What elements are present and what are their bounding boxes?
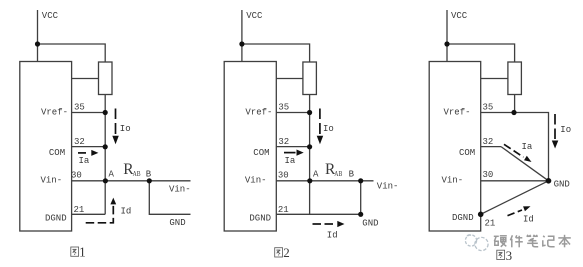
svg-text:Io: Io [120, 124, 131, 134]
resistor fig1 [99, 62, 113, 95]
svg-text:VCC: VCC [246, 11, 263, 21]
pin 32 wire fig2 [276, 146, 309, 148]
wire VCC supply fig1 [37, 10, 39, 62]
svg-text:Vref-: Vref- [444, 107, 471, 117]
svg-text:B: B [146, 170, 152, 180]
pin 35 wire fig2 [276, 112, 309, 114]
svg-text:2: 2 [283, 245, 290, 260]
wire top rail fig3 [447, 44, 515, 62]
junction dot VCC fig1 [35, 41, 40, 46]
svg-text:DGND: DGND [249, 214, 271, 224]
diagonal wire pin32 to GND fig3 [501, 147, 549, 181]
pin 35 wire fig1 [72, 112, 106, 114]
svg-text:Ia: Ia [522, 142, 533, 152]
pin 21 wire fig1 [72, 213, 106, 215]
char 硬 [494, 236, 507, 247]
IC block fig2 [224, 62, 276, 232]
wire IC-to-resistor stub fig1 [72, 78, 99, 80]
current arrow Io fig1 [112, 109, 119, 145]
svg-text:21: 21 [278, 205, 289, 215]
current arrow Io fig3 [552, 114, 559, 149]
svg-text:DGND: DGND [452, 213, 474, 223]
svg-text:Id: Id [523, 215, 534, 225]
diagonal wire pin21 to GND fig3 [481, 181, 549, 215]
node B dot fig2 [358, 178, 363, 183]
current arrow Ia fig2 [284, 150, 304, 156]
svg-text:B: B [349, 170, 355, 180]
pin 21 wire fig2 [276, 213, 360, 215]
char 笔 [527, 235, 538, 247]
wire resistor bottom lead fig1 [104, 95, 106, 113]
svg-text:GND: GND [169, 218, 185, 228]
wire resistor bottom lead fig3 [514, 95, 516, 113]
wire resistor bottom lead fig2 [309, 95, 311, 113]
char 记 [543, 236, 555, 247]
svg-text:Vin-: Vin- [245, 175, 267, 185]
current arrow Ia fig1 [78, 150, 98, 156]
junction dot pin35 fig1 [103, 110, 108, 115]
caption 图1 [71, 247, 79, 256]
IC block fig3 [429, 62, 481, 232]
node GND dot fig3 [546, 178, 552, 184]
svg-text:32: 32 [483, 137, 494, 147]
svg-text:Id: Id [121, 207, 132, 217]
wire IC-to-resistor stub fig2 [276, 78, 303, 80]
svg-text:Vin-: Vin- [41, 175, 63, 185]
junction dot pin32 fig2 [307, 144, 312, 149]
svg-text:GND: GND [362, 219, 378, 229]
svg-text:3: 3 [506, 248, 512, 263]
current arrow Id fig1 [86, 198, 117, 223]
wire top rail fig2 [242, 44, 310, 62]
wire pin21 riser fig1 [104, 181, 106, 215]
svg-text:Id: Id [327, 231, 338, 241]
junction dot pin35 fig3 [511, 110, 516, 115]
junction dot VCC fig3 [444, 41, 449, 46]
char 本 [558, 235, 571, 248]
wire IC-to-resistor stub fig3 [481, 78, 508, 80]
current arrow Ia fig3 [504, 144, 532, 162]
wire B to GND fig1 [149, 181, 190, 215]
junction dot pin35 fig2 [307, 110, 312, 115]
svg-text:35: 35 [278, 103, 289, 113]
junction dot GND corner fig2 [358, 212, 363, 217]
IC block fig1 [20, 62, 72, 232]
svg-text:Vin-: Vin- [169, 185, 191, 195]
wire VCC supply fig3 [446, 10, 448, 62]
svg-text:AB: AB [133, 170, 141, 178]
junction dot VCC fig2 [239, 41, 244, 46]
wire bus riser fig2 [309, 181, 311, 215]
svg-text:Vin-: Vin- [442, 175, 464, 185]
svg-text:DGND: DGND [45, 214, 67, 224]
pin 30 wire fig3 [481, 180, 549, 182]
caption 图3 [497, 250, 505, 259]
svg-text:A: A [109, 170, 115, 180]
pin 35 wire to right corner fig3 [481, 113, 549, 181]
wire B to GND drop fig2 [360, 181, 362, 215]
node A dot fig1 [103, 178, 108, 183]
svg-text:AB: AB [334, 170, 342, 178]
svg-text:21: 21 [74, 205, 85, 215]
pin 32 wire fig1 [72, 146, 106, 148]
svg-text:Ia: Ia [79, 156, 90, 166]
svg-text:Ia: Ia [285, 156, 296, 166]
resistor fig2 [303, 62, 317, 95]
pin 30 wire Vin- net fig1 [72, 180, 191, 182]
node B dot fig1 [147, 178, 152, 183]
svg-text:VCC: VCC [451, 11, 468, 21]
current arrow Id fig2 [313, 221, 345, 227]
svg-text:Vin-: Vin- [377, 181, 399, 191]
svg-text:32: 32 [278, 137, 289, 147]
pin 32 stub fig3 [481, 146, 501, 148]
svg-text:COM: COM [253, 148, 269, 158]
current arrow Io fig2 [317, 109, 324, 145]
watermark logo sketch [465, 235, 488, 251]
current arrow Id fig3 [508, 206, 531, 215]
svg-text:Vref-: Vref- [245, 107, 272, 117]
svg-text:COM: COM [459, 148, 475, 158]
svg-text:COM: COM [49, 148, 65, 158]
caption 图2 [275, 248, 283, 257]
svg-text:21: 21 [485, 218, 496, 228]
svg-text:30: 30 [71, 170, 82, 180]
svg-text:32: 32 [74, 137, 85, 147]
node A dot fig2 [307, 178, 312, 183]
junction dot pin21 fig3 [478, 212, 484, 218]
svg-text:35: 35 [483, 103, 494, 113]
wire VCC supply fig2 [241, 10, 243, 62]
svg-text:30: 30 [278, 170, 289, 180]
svg-text:VCC: VCC [42, 11, 59, 21]
svg-text:A: A [313, 170, 319, 180]
svg-text:Io: Io [560, 125, 571, 135]
svg-text:1: 1 [79, 245, 86, 260]
junction dot pin32 fig1 [103, 144, 108, 149]
wire vertical bus fig2 [309, 113, 311, 181]
svg-text:30: 30 [483, 170, 494, 180]
svg-text:35: 35 [74, 103, 85, 113]
svg-text:GND: GND [554, 180, 570, 190]
svg-text:Vref-: Vref- [41, 107, 68, 117]
svg-text:Io: Io [323, 124, 334, 134]
resistor fig3 [508, 62, 522, 95]
watermark text 硬件笔记本 [494, 235, 571, 248]
wire vertical bus fig1 [104, 113, 106, 181]
wire top rail fig1 [38, 44, 106, 62]
char 件 [510, 235, 522, 247]
pin 30 wire Vin- net fig2 [276, 180, 373, 182]
